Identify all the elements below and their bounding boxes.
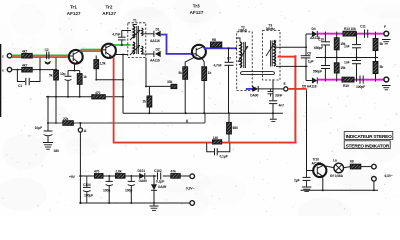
transformer T3: [263, 24, 280, 80]
diode D2 AA116: [146, 48, 161, 63]
svg-text:AC151: AC151: [312, 162, 322, 166]
resistor R22: [171, 170, 181, 179]
wire T3 top to rectifier: [274, 46, 307, 48]
diode D7 OA95 shunt: [151, 176, 166, 203]
ground below C4: [43, 143, 53, 150]
diode D1 AA116: [146, 27, 161, 43]
capacitor C10 ladder: [314, 32, 330, 58]
svg-text:1k: 1k: [208, 71, 212, 75]
svg-text:100μF: 100μF: [84, 194, 93, 198]
+9V label: [69, 175, 76, 179]
resistor R5 on bus: [92, 91, 106, 99]
svg-text:10μF: 10μF: [35, 126, 42, 130]
label Tr1: [67, 5, 81, 17]
lamp La: [324, 159, 344, 178]
svg-text:+9V: +9V: [69, 175, 76, 179]
resistor R6 on wire y123: [63, 117, 74, 125]
svg-text:C7: C7: [227, 56, 231, 60]
terminal input 2: [2, 67, 12, 72]
svg-text:4,7nF: 4,7nF: [214, 63, 222, 67]
ground symbol on bus: [150, 203, 159, 210]
resistor R15 ladder top: [334, 32, 345, 58]
wire blue segment before OA90: [246, 88, 253, 90]
svg-text:R13 10k: R13 10k: [344, 27, 356, 31]
svg-text:AF127: AF127: [102, 11, 116, 16]
svg-text:68: 68: [350, 160, 354, 164]
terminal stereo top: [372, 164, 377, 169]
capacitor C19 electrolytic shunt: [125, 176, 135, 203]
svg-text:180: 180: [54, 149, 59, 153]
capacitor and ground below T3: [269, 79, 284, 121]
svg-text:560pF: 560pF: [313, 70, 322, 74]
box STEREO INDIKATOR: [344, 141, 390, 149]
wire red from node E to stereo branch: [288, 88, 307, 90]
capacitor C15 bypass loop under red rail: [207, 143, 230, 158]
svg-text:1μF: 1μF: [308, 59, 314, 63]
capacitor C11 series top rail: [360, 25, 368, 38]
wire green Tr2 to T1: [114, 44, 131, 46]
resistor R20: [94, 170, 103, 179]
middle wire of de-emphasis network: [316, 57, 378, 59]
bus wire y96: [46, 96, 124, 98]
resistor R21: [116, 170, 126, 179]
capacitor C14 ladder: [344, 32, 361, 58]
red supply rail right vertical: [294, 55, 296, 143]
svg-text:C104: C104: [83, 183, 91, 187]
svg-text:C102: C102: [154, 169, 162, 173]
node E: [284, 82, 288, 91]
terminal F output top: [382, 25, 391, 44]
svg-text:680pF: 680pF: [314, 46, 323, 50]
label smudge: [54, 149, 59, 153]
svg-text:R19: R19: [343, 84, 349, 88]
transformer T2: [236, 25, 252, 90]
capacitor C9 electrolytic: [301, 34, 314, 81]
bottom AGC chain wire: [80, 175, 189, 177]
svg-text:1k: 1k: [83, 75, 87, 79]
svg-text:100μ: 100μ: [125, 189, 132, 193]
capacitor C3 electrolytic below Tr1: [60, 63, 80, 97]
terminal ground bus: [190, 201, 195, 206]
svg-text:0,1μF: 0,1μF: [220, 155, 228, 159]
transistor Tr3: [192, 45, 206, 59]
svg-text:33nF: 33nF: [275, 94, 282, 98]
resistor R3 on vertical: [49, 70, 58, 80]
svg-text:38kHz: 38kHz: [266, 27, 276, 31]
svg-text:140: 140: [213, 136, 218, 140]
svg-text:1,8k: 1,8k: [116, 170, 122, 174]
wire node A down to +9V junction: [79, 132, 81, 204]
capacitor C7: [214, 47, 234, 113]
wire input 2 to vertical drop: [55, 58, 57, 124]
svg-text:OA90: OA90: [139, 179, 148, 183]
resistor R17 ladder right top: [373, 32, 383, 59]
diode D5 AA118 bottom: [302, 77, 317, 88]
terminal input 1: [2, 54, 12, 59]
svg-text:470: 470: [95, 91, 100, 95]
svg-text:Tr1: Tr1: [70, 5, 77, 10]
wire T3 mid to rectifier: [276, 65, 308, 67]
capacitor C2 series on input wire: [45, 48, 52, 65]
label Tr3: [190, 4, 204, 16]
svg-text:19kHz: 19kHz: [238, 29, 248, 33]
wire emitter to ground bus: [322, 176, 324, 190]
terminal G output bottom: [382, 77, 391, 90]
resistor R9 below Tr3: [178, 57, 194, 113]
svg-text:OA90: OA90: [250, 94, 259, 98]
scan edge artifact left: [0, 44, 2, 117]
magenta rail top: [318, 33, 384, 35]
capacitor C16 ladder: [344, 58, 361, 82]
coupling link wires between T2 and T3: [241, 72, 275, 75]
svg-text:D2: D2: [156, 48, 160, 52]
resistor R11 small above wire y113: [143, 86, 152, 113]
resistor R10 below Tr3: [202, 58, 212, 113]
terminal stereo bottom: [372, 174, 393, 181]
red bend top right: [278, 56, 297, 58]
diode D6 OA90: [138, 169, 148, 183]
svg-text:5k: 5k: [380, 42, 384, 46]
svg-text:D4: D4: [312, 27, 316, 31]
wire long y113: [123, 112, 283, 114]
wire Tr2 collector down: [114, 54, 128, 114]
svg-text:5k: 5k: [49, 74, 53, 78]
svg-text:470: 470: [94, 170, 99, 174]
resistor R19 on bottom rail: [342, 77, 354, 88]
svg-text:C1: C1: [18, 84, 22, 88]
svg-text:D101: D101: [138, 169, 146, 173]
wire green highlighted input to Tr1: [12, 55, 69, 58]
terminal output AGC: [186, 174, 195, 191]
wire T1 bottom down: [145, 58, 177, 89]
junction node on input wire: [0, 0, 1, 1]
capacitor C17 series: [154, 169, 164, 184]
resistor R13 on top rail: [343, 27, 356, 36]
box INDICATEUR STEREO: [344, 132, 393, 140]
svg-text:100pF: 100pF: [356, 85, 365, 89]
wire green highlighted Tr1 to Tr2: [81, 49, 102, 52]
capacitor C18 electrolytic shunt: [103, 176, 113, 203]
svg-text:C2: C2: [45, 48, 49, 52]
svg-text:1,5k: 1,5k: [100, 62, 106, 66]
resistor R18 ladder right bottom: [373, 58, 383, 82]
svg-text:R8: R8: [212, 38, 216, 42]
svg-text:4n7: 4n7: [279, 104, 285, 108]
wire to stereo indicator base: [307, 90, 314, 171]
svg-text:5k: 5k: [380, 65, 384, 69]
wire blue Tr3 collector to T2: [204, 47, 238, 49]
capacitor C13 series bottom rail: [356, 76, 365, 90]
svg-text:C10: C10: [318, 38, 324, 42]
transformer T1: [128, 19, 146, 58]
resistor R4 below Tr1: [77, 71, 87, 97]
ground below C20: [302, 187, 311, 191]
label Tr2: [102, 5, 116, 17]
resistor R14 on red rail: [213, 136, 222, 144]
capacitor C104: [83, 176, 93, 203]
svg-text:2μF: 2μF: [294, 179, 300, 183]
diode D4 AA118 top: [306, 27, 320, 40]
wire y123 horizontal: [47, 113, 205, 124]
magenta rail bottom: [318, 79, 384, 81]
wire from node down to R3: [55, 69, 57, 71]
svg-text:1nF: 1nF: [344, 45, 350, 49]
resistor R1 on input wire: [22, 50, 32, 59]
svg-text:D5 AA118: D5 AA118: [302, 85, 317, 89]
wire stereo ground: [301, 181, 379, 191]
ground bus bottom: [80, 202, 189, 204]
resistor R8 on blue wire: [211, 38, 222, 47]
capacitor C8 33nF shunt: [268, 89, 283, 98]
resistor R23 lamp series: [343, 160, 371, 169]
resistor R16 ladder bottom: [334, 58, 345, 82]
wire blue from diodes to Tr3: [161, 34, 193, 55]
capacitor C4 electrolytic left: [35, 97, 53, 143]
wire T2 bottom to OA90: [246, 89, 248, 91]
wire input 2: [12, 69, 56, 71]
capacitor C1 loop below input 2: [17, 58, 40, 88]
transistor Tr1: [69, 50, 83, 64]
transistor Tr10 indicator: [312, 158, 327, 178]
capacitor C12 ladder: [313, 58, 330, 82]
svg-text:6V 0,06A: 6V 0,06A: [330, 174, 344, 178]
capacitor C5 4,7nF above: [112, 31, 131, 47]
svg-text:6,3V~: 6,3V~: [385, 174, 393, 178]
red supply wire vertical from Tr2: [113, 58, 115, 143]
svg-text:2k: 2k: [143, 100, 147, 104]
red supply rail bottom: [113, 142, 297, 144]
svg-text:La: La: [333, 159, 337, 163]
svg-text:C11: C11: [360, 25, 366, 29]
node A: [78, 123, 86, 133]
capacitor C20 at base: [294, 171, 311, 188]
resistor R7 below Tr2: [94, 56, 124, 81]
diode D3 OA90: [250, 86, 284, 98]
resistor R2 on input wire 2: [22, 64, 32, 73]
svg-text:100μ: 100μ: [103, 189, 110, 193]
transistor Tr2: [102, 44, 116, 58]
resistor R12 below wire junction: [227, 113, 238, 142]
